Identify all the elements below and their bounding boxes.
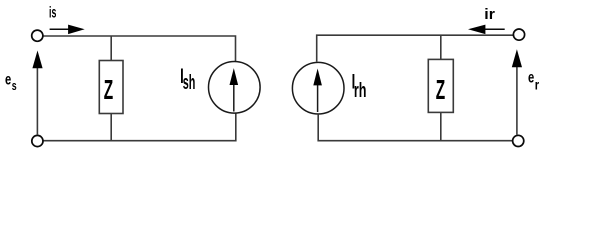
svg-text:s: s <box>12 79 17 93</box>
voltage arrow: er <box>512 49 522 135</box>
svg-text:ir: ir <box>484 6 495 22</box>
terminal: sending-end bottom <box>32 135 43 146</box>
svg-text:rh: rh <box>354 79 367 102</box>
label: Ish <box>180 64 195 94</box>
current source Irh <box>292 62 344 114</box>
wire: right Z branch bottom <box>440 112 442 140</box>
svg-text:is: is <box>49 3 56 22</box>
wire: left network top rail <box>44 36 236 61</box>
wire: right Z branch top <box>440 35 442 59</box>
terminal: receiving-end bottom <box>513 135 524 146</box>
current source Ish <box>209 62 261 114</box>
label: er <box>528 67 539 92</box>
svg-text:Z: Z <box>104 74 114 105</box>
label: Irh <box>352 69 367 102</box>
svg-text:e: e <box>5 70 11 89</box>
svg-text:r: r <box>535 77 539 92</box>
terminal: sending-end top <box>32 30 43 41</box>
terminal: receiving-end top <box>513 29 524 40</box>
wire: right network bottom rail <box>318 114 512 140</box>
wire: left Z branch bottom <box>110 114 112 141</box>
wire: left Z branch top <box>110 36 112 61</box>
svg-text:e: e <box>528 67 534 86</box>
impedance Z (right shunt box) <box>428 59 453 112</box>
wire: left network bottom rail <box>44 113 236 140</box>
svg-text:sh: sh <box>183 72 196 94</box>
current arrow: is <box>50 25 85 34</box>
wire: right network top rail <box>317 35 514 62</box>
current arrow: ir <box>468 25 505 34</box>
label: es <box>5 70 17 94</box>
voltage arrow: es <box>32 51 42 136</box>
svg-text:Z: Z <box>436 74 446 105</box>
impedance Z (left shunt box) <box>99 61 123 114</box>
